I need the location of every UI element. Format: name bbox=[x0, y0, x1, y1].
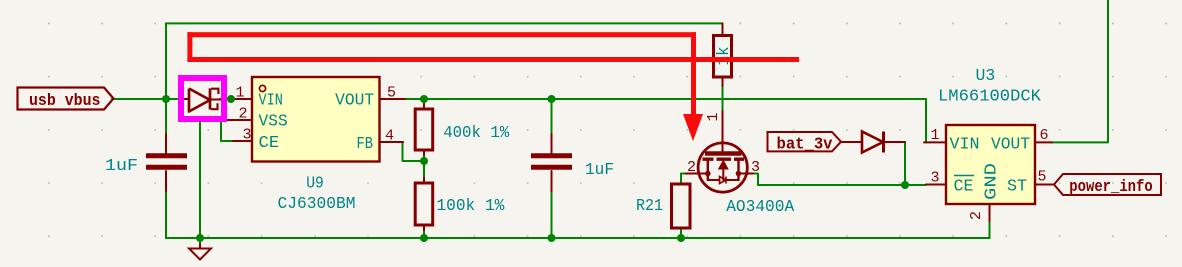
ground bbox=[189, 244, 211, 260]
pin 5 U9 VOUT bbox=[380, 85, 406, 102]
svg-text:1: 1 bbox=[930, 127, 939, 144]
svg-text:U3: U3 bbox=[976, 67, 996, 86]
node junction VOUT/400k bbox=[420, 95, 428, 103]
pin 2 U9 VSS bbox=[225, 106, 252, 123]
svg-text:R21: R21 bbox=[636, 197, 663, 216]
global label usb_vbus bbox=[18, 88, 114, 112]
svg-text:100k 1%: 100k 1% bbox=[436, 197, 505, 216]
resistor 100k 1% bbox=[415, 178, 505, 230]
svg-text:GND: GND bbox=[983, 163, 1002, 200]
svg-text:AO3400A: AO3400A bbox=[726, 198, 795, 217]
svg-text:1k: 1k bbox=[715, 47, 734, 66]
svg-text:power_info: power_info bbox=[1069, 178, 1152, 197]
transistor Q1 AO3400A bbox=[698, 111, 795, 217]
wire usb_vbus label to junction bbox=[112, 98, 170, 100]
pin 5 U3 ST bbox=[1035, 169, 1054, 186]
node junction ground/100k bbox=[420, 234, 428, 242]
svg-text:400k 1%: 400k 1% bbox=[443, 124, 510, 143]
svg-text:ST: ST bbox=[1007, 177, 1027, 196]
svg-text:VIN: VIN bbox=[950, 136, 980, 155]
wire ground rail bbox=[166, 237, 990, 239]
svg-text:3: 3 bbox=[242, 127, 251, 144]
wire ground symbol stub bbox=[199, 238, 201, 248]
node junction ground/C2 bbox=[548, 234, 556, 242]
pin 1 Q1 drain bbox=[705, 112, 722, 121]
wire Q1 source to U3 CE bbox=[753, 174, 926, 186]
pin 3 U3 CE bbox=[926, 170, 946, 187]
svg-text:1: 1 bbox=[705, 112, 722, 121]
wire VOUT rail down to U3 VIN bbox=[925, 99, 927, 142]
svg-text:1uF: 1uF bbox=[585, 161, 614, 180]
wire diode cathode to U9 VIN bbox=[220, 98, 233, 100]
svg-text:usb vbus: usb vbus bbox=[29, 92, 101, 111]
wire 400k top stub bbox=[423, 99, 425, 104]
wire bat diode to CE net bbox=[904, 142, 906, 185]
annotation red highlight arrow bbox=[187, 32, 799, 141]
svg-text:FB: FB bbox=[357, 135, 374, 154]
wire VSS to CE link bbox=[221, 120, 233, 141]
wire U3 GND down bbox=[989, 221, 991, 238]
wire R21 bottom stub bbox=[680, 228, 682, 238]
svg-text:VOUT: VOUT bbox=[991, 136, 1030, 155]
svg-text:2: 2 bbox=[968, 211, 985, 220]
pin 6 U3 VOUT bbox=[1035, 127, 1052, 144]
svg-text:bat_3v: bat_3v bbox=[777, 136, 833, 155]
pin 2 U3 GND bbox=[968, 204, 990, 221]
pin 3 U9 CE bbox=[233, 127, 252, 144]
svg-text:VSS: VSS bbox=[259, 113, 288, 132]
wire k-resistor to Q1 drain bbox=[722, 86, 724, 111]
resistor 400k 1% bbox=[415, 104, 510, 155]
wire junction up to top rail bbox=[165, 23, 167, 99]
svg-text:6: 6 bbox=[1039, 127, 1048, 144]
global label power_info bbox=[1054, 174, 1161, 197]
svg-text:4: 4 bbox=[385, 128, 394, 145]
resistor R21 bbox=[636, 184, 690, 228]
wire VOUT rail bbox=[405, 98, 926, 100]
svg-text:LM66100DCK: LM66100DCK bbox=[938, 88, 1042, 107]
wire VSS to ground net bbox=[200, 120, 233, 238]
node junction ground/GND symbol bbox=[196, 234, 204, 242]
svg-text:3: 3 bbox=[930, 170, 939, 187]
svg-text:3: 3 bbox=[751, 159, 760, 176]
wire diode anode stub bbox=[166, 98, 182, 100]
node junction VOUT/C2 bbox=[548, 95, 556, 103]
diode D2 bbox=[841, 132, 905, 153]
pin 4 U9 FB bbox=[380, 128, 404, 145]
op-amp U3 LM66100DCK body bbox=[938, 67, 1042, 204]
diode D1 schottky bbox=[182, 88, 222, 111]
wire C2 top bbox=[551, 99, 553, 134]
wire 100k bottom stub bbox=[423, 230, 425, 238]
wire C2 bottom bbox=[551, 191, 553, 238]
wire C1 bottom bbox=[165, 191, 167, 238]
svg-text:VIN: VIN bbox=[259, 92, 283, 111]
wire U3 VOUT feedback up bbox=[1051, 0, 1108, 142]
capacitor C1 1uF bbox=[105, 134, 187, 191]
svg-text:CE: CE bbox=[954, 177, 974, 196]
svg-text:1uF: 1uF bbox=[105, 157, 138, 176]
op-amp U9 CJ6300BM body bbox=[252, 77, 380, 214]
annotation magenta highlight box around D1 bbox=[181, 78, 224, 119]
svg-text:CE: CE bbox=[259, 134, 280, 153]
capacitor C2 1uF bbox=[531, 134, 614, 191]
wire FB to divider bbox=[403, 142, 425, 161]
svg-text:1: 1 bbox=[235, 85, 244, 102]
global label bat_3v bbox=[768, 132, 842, 155]
node junction CE net / bat diode bbox=[901, 181, 909, 189]
wire top rail to resistor R(1k) bbox=[166, 22, 723, 24]
svg-text:2: 2 bbox=[238, 106, 247, 123]
pin 3 Q1 source bbox=[739, 159, 761, 176]
wire C1 top bbox=[165, 99, 167, 134]
wire Q1 gate to R21 bbox=[681, 174, 686, 185]
svg-text:5: 5 bbox=[1037, 169, 1046, 186]
svg-text:VOUT: VOUT bbox=[335, 92, 374, 111]
svg-text:2: 2 bbox=[687, 159, 696, 176]
node junction usb_vbus bbox=[162, 95, 170, 103]
resistor 1k bbox=[714, 23, 735, 86]
wire divider middle bbox=[423, 155, 425, 178]
svg-text:U9: U9 bbox=[306, 175, 324, 194]
node junction diode cathode / VIN bbox=[227, 95, 235, 103]
node junction ground/R21 bbox=[677, 234, 685, 242]
pin 1 U9 VIN bbox=[233, 85, 252, 102]
node junction FB divider bbox=[420, 157, 428, 165]
pin 1 U3 VIN bbox=[924, 127, 946, 144]
pin 2 Q1 gate bbox=[686, 159, 708, 176]
svg-text:5: 5 bbox=[387, 85, 396, 102]
svg-text:CJ6300BM: CJ6300BM bbox=[278, 195, 356, 214]
